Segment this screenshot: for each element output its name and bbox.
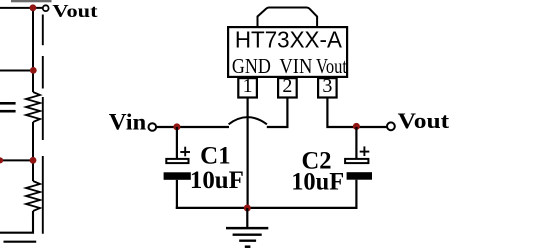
wire: left vertical rail (middle part)	[32, 122, 34, 181]
wire: horizontal stub at y=70 from left edge	[0, 70, 33, 72]
capacitor C1: bottom plate (solid)	[164, 172, 191, 180]
resistor R1 (upper zigzag on left rail)	[26, 92, 40, 122]
terminal: Vin open circle	[149, 123, 157, 131]
terminal: Vout open circle	[387, 122, 395, 130]
ground symbol	[226, 208, 268, 247]
capacitor C2: plus sign	[360, 146, 370, 156]
resistor R2 (lower zigzag on left rail)	[26, 181, 40, 211]
wire hop: crossover arc over pin-1 wire	[229, 117, 267, 124]
wire: left vertical rail (lower part) with corner to left edge	[0, 211, 33, 233]
node: junction dot at y=70	[30, 67, 37, 74]
capacitor C1: plus sign	[180, 147, 190, 157]
pin 2 box	[278, 78, 297, 97]
capacitor C1: top plate (hollow)	[166, 159, 188, 163]
svg-text:10uF: 10uF	[291, 169, 344, 196]
op-amp U1: HT73XX-A package body	[228, 27, 347, 77]
wire: Vin horizontal input line	[156, 126, 229, 128]
wire: broken vertical line right of left rail	[42, 15, 44, 234]
svg-text:C1: C1	[200, 143, 231, 170]
wire: pin 2 (VIN) down and left to input line	[267, 98, 288, 127]
wire: short floating line at bottom-left	[4, 241, 37, 243]
svg-text:1: 1	[243, 75, 253, 97]
wire: left vertical rail (upper part)	[32, 8, 34, 92]
svg-text:10uF: 10uF	[190, 167, 244, 194]
svg-text:Vin: Vin	[109, 110, 147, 135]
svg-text:Vout: Vout	[52, 1, 97, 21]
grey partial line (top-left crop remnant)	[11, 0, 52, 2]
node: junction dot at y=160	[30, 157, 37, 164]
capacitor (partial, at left edge): plates	[0, 102, 16, 105]
node: junction dot Vin / C1	[173, 123, 180, 130]
capacitor C2: bottom plate (solid)	[347, 172, 372, 180]
capacitor C1: bottom stub	[176, 180, 178, 209]
wire: bottom ground rail	[176, 207, 358, 209]
wire: pin 3 (Vout) down and right to output terminal	[327, 98, 386, 127]
wire: pin 1 (GND) vertical down to ground rail	[247, 98, 249, 208]
pin 3 box	[318, 78, 337, 97]
node: clipped junction dot at left edge y=160	[0, 157, 3, 163]
capacitor C2: bottom stub	[355, 180, 357, 209]
node: junction dot on top-left wire	[30, 4, 37, 11]
svg-text:Vout: Vout	[398, 108, 450, 133]
node: junction dot Vout / C2	[353, 123, 360, 130]
op-amp U1: HT73XX-A package tab	[258, 8, 318, 28]
capacitor C2: top plate (hollow)	[345, 159, 368, 163]
capacitor C1: top stub	[176, 127, 178, 158]
capacitor C2: top stub	[355, 127, 357, 158]
svg-text:HT73XX-A: HT73XX-A	[235, 26, 342, 52]
terminal: upper-left Vout open circle	[43, 5, 49, 11]
pin 1 box	[238, 78, 257, 97]
wire: horizontal stub at y=160 from left edge	[0, 159, 33, 161]
node: junction dot on ground rail	[244, 205, 251, 212]
svg-text:3: 3	[322, 75, 332, 97]
wire: top-left horizontal to Vout terminal	[0, 7, 43, 9]
svg-text:2: 2	[282, 75, 292, 97]
